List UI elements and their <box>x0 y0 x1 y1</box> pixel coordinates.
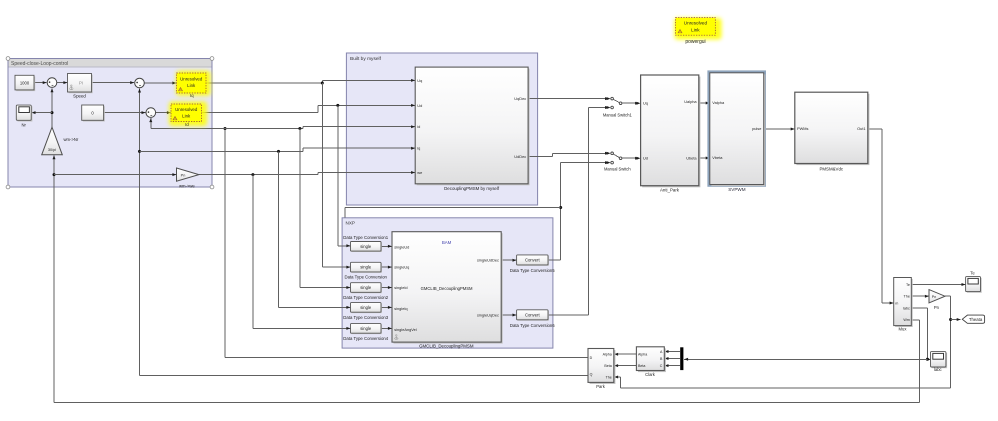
svg-text:PMSM&Vdc: PMSM&Vdc <box>819 166 843 171</box>
svg-text:Alpha: Alpha <box>638 352 647 356</box>
svg-text:singleIq: singleIq <box>394 306 407 311</box>
svg-text:Uq: Uq <box>643 100 648 105</box>
svg-text:NXP: NXP <box>346 221 355 226</box>
svg-text:Anti_Park: Anti_Park <box>660 188 680 193</box>
svg-text:30/pi: 30/pi <box>48 148 56 152</box>
svg-text:Mux: Mux <box>899 327 908 332</box>
svg-text:Link: Link <box>691 28 700 33</box>
svg-text:C: C <box>660 364 663 368</box>
svg-text:Data Type Conversion2: Data Type Conversion2 <box>343 295 388 300</box>
svg-text:Unresolved: Unresolved <box>684 21 708 26</box>
svg-text:Link: Link <box>187 83 196 88</box>
svg-text:Built by myself: Built by myself <box>350 56 382 62</box>
svg-text:Ualpha: Ualpha <box>684 99 697 104</box>
svg-text:Alpha: Alpha <box>603 353 612 357</box>
svg-text:Link: Link <box>182 113 191 118</box>
svg-text:BAM: BAM <box>442 240 452 245</box>
svg-text:Data Type Conversion: Data Type Conversion <box>344 275 387 280</box>
svg-text:Pn: Pn <box>934 305 940 310</box>
svg-text:Out1: Out1 <box>857 126 865 131</box>
svg-text:Clark: Clark <box>645 372 656 377</box>
svg-text:single: single <box>360 305 372 310</box>
svg-text:Iabc: Iabc <box>903 306 910 310</box>
svg-text:Manual Switch1: Manual Switch1 <box>603 113 633 118</box>
svg-text:Convert: Convert <box>525 258 540 263</box>
svg-text:Beta: Beta <box>638 364 645 368</box>
svg-text:Data Type Conversion6: Data Type Conversion6 <box>510 323 555 328</box>
svg-text:Park: Park <box>596 384 606 389</box>
svg-text:Speed: Speed <box>73 93 86 98</box>
svg-text:iq: iq <box>417 146 420 151</box>
svg-text:singleUd: singleUd <box>394 244 409 249</box>
svg-text:D: D <box>590 356 593 360</box>
svg-text:UdDec: UdDec <box>514 154 526 159</box>
svg-text:Data Type Conversion3: Data Type Conversion3 <box>343 315 388 320</box>
svg-text:single: single <box>360 285 372 290</box>
svg-text:The: The <box>904 294 910 298</box>
svg-text:Ubeta: Ubeta <box>686 155 697 160</box>
svg-text:single: single <box>360 244 372 249</box>
svg-text:Uq: Uq <box>417 78 422 83</box>
svg-text:Manual Switch: Manual Switch <box>604 167 631 172</box>
svg-text:wm->we: wm->we <box>179 184 195 189</box>
svg-text:GMCLIB_DecouplingPMSM: GMCLIB_DecouplingPMSM <box>421 286 473 291</box>
svg-text:Vbeta: Vbeta <box>712 155 723 160</box>
svg-text:Convert: Convert <box>525 313 540 318</box>
svg-text:Nr: Nr <box>21 123 26 128</box>
svg-text:DecouplingPMSM by myself: DecouplingPMSM by myself <box>444 186 500 191</box>
svg-text:singleAngVel: singleAngVel <box>394 327 417 332</box>
svg-text:singleUqDec: singleUqDec <box>477 313 499 318</box>
svg-text:Theata: Theata <box>969 317 983 322</box>
svg-text:Pn: Pn <box>932 295 936 299</box>
svg-text:Data Type Conversion4: Data Type Conversion4 <box>343 336 388 341</box>
svg-text:we: we <box>417 170 422 175</box>
svg-text:Ud: Ud <box>417 103 422 108</box>
svg-text:Speed-close-Loop-control: Speed-close-Loop-control <box>11 61 68 67</box>
svg-text:Te: Te <box>906 283 910 287</box>
svg-text:Pn: Pn <box>181 173 186 177</box>
svg-text:PI: PI <box>79 81 83 86</box>
svg-text:single: single <box>360 265 372 270</box>
svg-text:Valpha: Valpha <box>712 100 725 105</box>
svg-text:single: single <box>360 326 372 331</box>
svg-text:m: m <box>895 301 898 305</box>
svg-text:Data Type Conversion5: Data Type Conversion5 <box>510 268 555 273</box>
svg-text:powergui: powergui <box>685 39 705 45</box>
svg-text:UqDec: UqDec <box>514 96 526 101</box>
svg-text:Q: Q <box>590 373 593 377</box>
svg-text:Unresolved: Unresolved <box>175 107 198 112</box>
svg-text:labc: labc <box>934 367 942 372</box>
svg-text:singleUdDec: singleUdDec <box>477 258 499 263</box>
svg-text:singleUq: singleUq <box>394 265 409 270</box>
svg-text:Wm: Wm <box>903 318 910 322</box>
svg-text:id: id <box>417 124 420 129</box>
svg-text:Unresolved: Unresolved <box>180 76 203 81</box>
svg-text:Data Type Conversion1: Data Type Conversion1 <box>343 235 388 240</box>
svg-text:GMCLIB_DecouplingPMSM: GMCLIB_DecouplingPMSM <box>419 344 474 349</box>
svg-text:pulse: pulse <box>752 126 761 131</box>
svg-text:Te: Te <box>970 270 975 275</box>
svg-text:Ud: Ud <box>643 155 648 160</box>
svg-text:1000: 1000 <box>20 80 30 85</box>
svg-text:SVPWM: SVPWM <box>728 187 746 192</box>
svg-text:Beta: Beta <box>604 364 611 368</box>
svg-text:The: The <box>606 375 612 379</box>
svg-text:singleId: singleId <box>394 285 407 290</box>
svg-text:wm->Nr: wm->Nr <box>64 137 79 142</box>
svg-text:PWMs: PWMs <box>797 126 809 131</box>
